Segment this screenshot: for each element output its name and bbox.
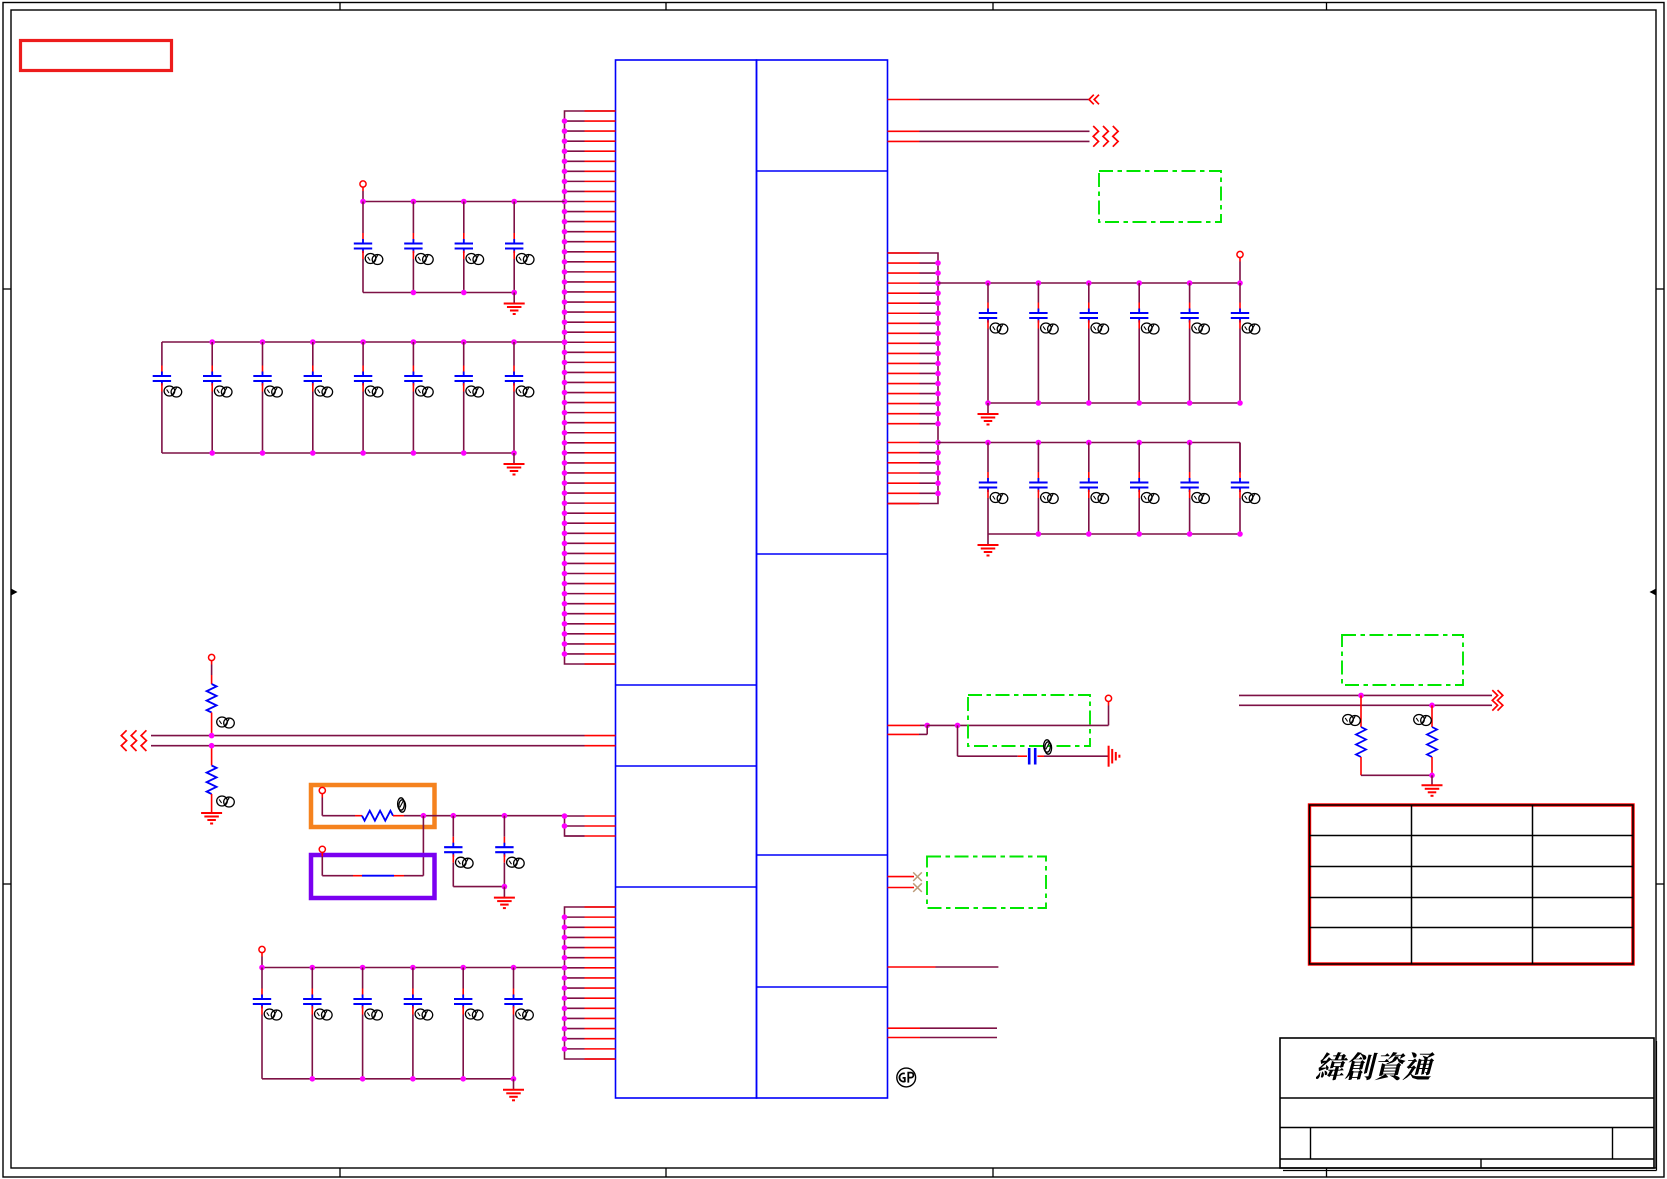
power terminal P1 — [360, 181, 366, 202]
capacitor C25 — [1180, 283, 1209, 403]
GP designator — [897, 1068, 916, 1087]
ground — [201, 813, 222, 824]
wire - U1 pin joins node C — [888, 725, 928, 734]
function block callout (green dashed) — [968, 695, 1090, 746]
wire - right cap bank 1 supply rail — [938, 280, 1243, 286]
IC U1 (main chip body) — [616, 60, 888, 1098]
wire - bottom cap bank ground rail — [262, 1076, 516, 1082]
ground — [494, 887, 515, 909]
wire - node C to power stub — [927, 702, 1108, 729]
resistor R1 — [207, 675, 235, 736]
wire - signal stub G — [888, 1027, 998, 1029]
capacitor C32 — [1231, 443, 1260, 535]
wire - U1 left mid pin group — [562, 813, 616, 836]
red annotation box — [21, 41, 172, 71]
capacitor C9 — [354, 342, 383, 453]
ferrite bead L1 — [322, 875, 423, 877]
highlight box (purple) — [311, 855, 435, 898]
resistor R3 — [322, 798, 423, 821]
wire - signal stub H — [888, 1037, 998, 1039]
capacitor C17 — [353, 968, 382, 1079]
capacitor C19 — [454, 968, 483, 1079]
power terminal P2 — [209, 654, 215, 675]
wire - right cap bank 1 ground rail — [985, 400, 1243, 406]
wire - signal stub F — [888, 966, 999, 968]
capacitor C27 — [979, 443, 1008, 535]
wire - top cap bank ground rail — [363, 290, 517, 296]
capacitor C7 — [253, 342, 282, 453]
resistor R4 — [1343, 695, 1366, 775]
wire - second cap bank supply rail — [162, 339, 567, 345]
capacitor C5 — [153, 342, 182, 453]
wire - net E — [1239, 703, 1492, 709]
capacitor C30 — [1130, 443, 1159, 535]
capacitor C10 — [404, 342, 433, 453]
capacitor C4 — [505, 202, 534, 293]
wire - U1 left pin bus (top pin field) — [562, 111, 616, 664]
capacitor C8 — [304, 342, 333, 453]
wire - right cap bank 2 ground rail — [988, 531, 1243, 537]
capacitor C11 — [455, 342, 484, 453]
wire - cap pair ground rail — [453, 884, 507, 890]
capacitor C31 — [1180, 443, 1209, 535]
off-page connector (>>) — [1492, 690, 1503, 711]
no-connect pin 1 — [888, 872, 922, 881]
ground — [1422, 775, 1443, 796]
wire - R3 output rail to U1 — [421, 813, 565, 819]
capacitor C1 — [354, 202, 383, 293]
wire - net B to U1 — [151, 743, 616, 749]
power terminal P7 — [1105, 695, 1111, 701]
wire - resistor commons — [1361, 773, 1435, 779]
revision table — [1310, 805, 1634, 964]
capacitor C23 — [1080, 283, 1109, 403]
capacitor C33 — [958, 725, 1109, 764]
power terminal P6 — [1237, 251, 1243, 283]
off-page connector (left, input) — [121, 730, 146, 751]
capacitor C22 — [1029, 283, 1058, 403]
ground — [503, 1079, 524, 1101]
power terminal P3 — [319, 787, 325, 815]
wire - stub to jumper — [422, 816, 424, 876]
capacitor C28 — [1029, 443, 1058, 535]
ground — [504, 293, 525, 315]
wire - right cap bank 2 supply rail — [938, 440, 1240, 473]
no-connect pin 2 — [888, 883, 922, 892]
wire - signal out top — [888, 99, 1090, 101]
title block — [1280, 1038, 1657, 1171]
power terminal P4 — [319, 846, 325, 876]
capacitor C12 — [505, 342, 534, 453]
ground — [978, 403, 999, 425]
capacitor C20 — [504, 968, 533, 1079]
capacitor C15 — [253, 968, 282, 1079]
capacitor C13 — [444, 816, 473, 887]
wire - second cap bank ground rail — [162, 450, 517, 456]
resistor R5 — [1414, 705, 1437, 775]
wire - net D — [1239, 693, 1492, 699]
highlight box (orange) — [311, 785, 435, 827]
resistor R2 — [207, 746, 235, 813]
function block callout (green dashed) — [1099, 171, 1221, 222]
Wistron logo (緯創資通) — [1315, 1052, 1437, 1080]
wire - U1 right pin bus — [888, 253, 941, 504]
off-page connector (<<) — [1089, 95, 1099, 105]
wire - U1 pin to node C — [888, 723, 931, 729]
capacitor C24 — [1130, 283, 1159, 403]
function block callout (green dashed) — [927, 857, 1046, 909]
ground — [1109, 746, 1120, 767]
wire - bottom cap bank supply rail — [259, 965, 564, 971]
capacitor C21 — [979, 283, 1008, 403]
function block callout (green dashed) — [1342, 635, 1463, 685]
ground — [504, 453, 525, 475]
capacitor C6 — [203, 342, 232, 453]
capacitor C18 — [404, 968, 433, 1079]
wire - signal pair upper — [888, 130, 1090, 132]
ground — [978, 534, 999, 556]
capacitor C2 — [404, 202, 433, 293]
capacitor C29 — [1080, 443, 1109, 535]
capacitor C26 — [1231, 283, 1260, 403]
wire - net A to U1 — [151, 733, 616, 739]
power terminal P5 — [259, 946, 265, 967]
wire - top cap bank supply rail — [360, 199, 564, 205]
capacitor C14 — [495, 816, 524, 887]
off-page connector (>>>) — [1093, 126, 1118, 147]
capacitor C3 — [455, 202, 484, 293]
wire - U1 left pin bus (bottom pin field) — [562, 907, 616, 1059]
capacitor C16 — [303, 968, 332, 1079]
wire - signal pair lower — [888, 140, 1090, 142]
